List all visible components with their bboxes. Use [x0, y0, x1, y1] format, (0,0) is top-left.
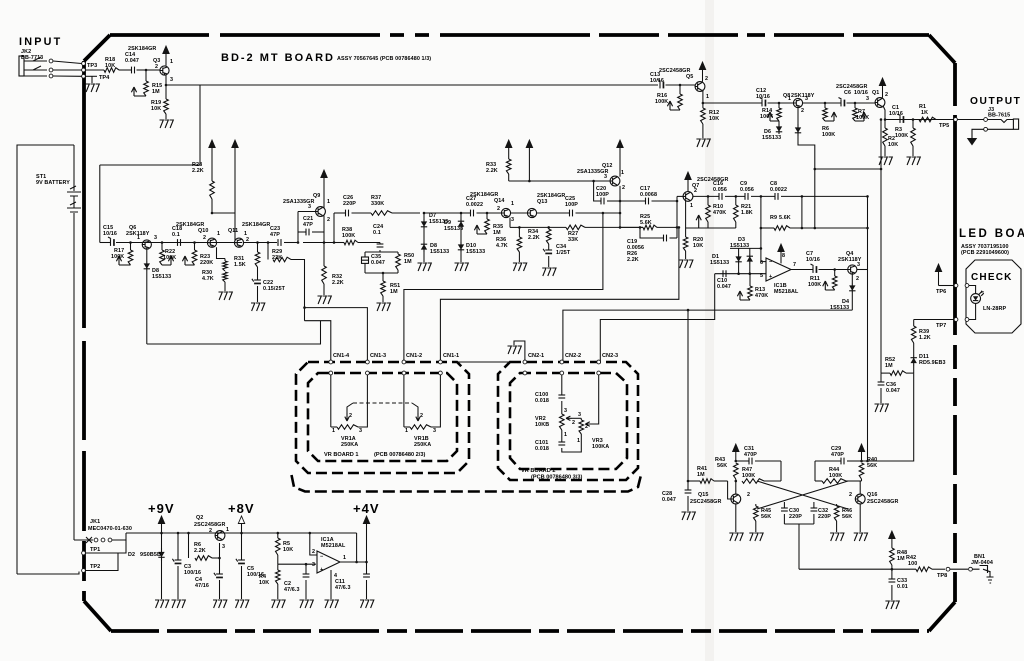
svg-text:56K: 56K	[761, 514, 771, 520]
capacitor C32 220P	[813, 502, 815, 508]
svg-text:47/16: 47/16	[195, 583, 209, 589]
svg-text:8: 8	[782, 253, 785, 259]
svg-text:1S5133: 1S5133	[762, 135, 781, 141]
svg-text:10K: 10K	[693, 243, 703, 249]
capacitor C23 47P	[277, 239, 279, 246]
svg-text:3: 3	[359, 428, 362, 434]
output line to TP8	[799, 568, 916, 570]
svg-text:CN1-1: CN1-1	[443, 353, 459, 359]
wire C8 node down	[801, 195, 804, 198]
wire junction up to C26/R37 row	[333, 213, 335, 243]
resistor R42 100	[916, 567, 932, 572]
svg-text:BD-2 MT BOARD: BD-2 MT BOARD	[221, 52, 335, 64]
VR board 1 inner outline	[308, 373, 457, 461]
svg-text:2: 2	[747, 492, 750, 498]
wire Q7 emitter down to bias bar	[685, 200, 687, 228]
feedback wire from Q1 emitter to first stage	[880, 120, 882, 374]
svg-text:TP4: TP4	[99, 75, 110, 81]
ganged pot dashed link	[347, 403, 353, 413]
control line from CN2-2	[563, 310, 852, 361]
svg-text:47P: 47P	[270, 232, 280, 238]
svg-text:0.0068: 0.0068	[640, 192, 657, 198]
ground below R2	[879, 157, 893, 165]
test point TP7	[969, 303, 976, 319]
wire C30/C32 to output line	[784, 523, 814, 525]
svg-text:100K: 100K	[111, 254, 124, 260]
wire to Q15 base	[728, 481, 731, 499]
cross-coupling wires	[757, 481, 848, 509]
svg-text:2: 2	[705, 76, 708, 82]
svg-text:100K: 100K	[829, 473, 842, 479]
resistor R38 100K on main row	[334, 242, 344, 244]
svg-text:2.2K: 2.2K	[528, 235, 540, 241]
resistor R25 5.6K	[620, 226, 643, 228]
ground below C36	[875, 404, 889, 412]
resistor R17 100K with bias arrow	[129, 241, 132, 244]
svg-text:220P: 220P	[343, 201, 356, 207]
resistor R45 56K	[755, 504, 757, 506]
svg-text:1S5133: 1S5133	[730, 243, 749, 249]
ground below R4	[271, 600, 285, 608]
svg-text:2: 2	[349, 413, 352, 419]
power arrow right rail	[858, 444, 864, 452]
wire VR2 wiper to VR3	[572, 417, 581, 419]
svg-text:1.2K: 1.2K	[919, 335, 931, 341]
Q16 collector and emitter wires	[859, 481, 861, 494]
svg-text:9S0B5B: 9S0B5B	[140, 552, 161, 558]
svg-text:100KA: 100KA	[592, 444, 609, 450]
diode pair D1/D3 feedback	[760, 247, 763, 250]
VR boards common envelope	[292, 475, 642, 492]
capacitor C22 0.15/25T	[254, 279, 261, 281]
svg-text:LN-28RP: LN-28RP	[983, 306, 1006, 312]
ground below R51	[377, 303, 391, 311]
svg-text:2: 2	[420, 413, 423, 419]
svg-text:+8V: +8V	[228, 501, 255, 516]
test point TP3	[82, 62, 86, 66]
test point TP4	[82, 68, 86, 72]
svg-text:0.018: 0.018	[535, 398, 549, 404]
svg-text:TP7: TP7	[936, 323, 946, 329]
wire R29 path to CN1-4	[305, 321, 331, 361]
svg-text:2.2K: 2.2K	[627, 257, 639, 263]
resistor R48 1M	[890, 548, 895, 565]
svg-text:33K: 33K	[568, 237, 578, 243]
svg-text:5.6K: 5.6K	[779, 215, 791, 221]
svg-text:100K: 100K	[895, 133, 908, 139]
wire IC1A output to +4V node	[340, 561, 367, 563]
svg-text:100K: 100K	[742, 473, 755, 479]
svg-text:2.2K: 2.2K	[192, 168, 204, 174]
wire jack to TP3/TP4	[53, 61, 82, 64]
ground below C11	[360, 600, 374, 608]
svg-text:22K: 22K	[272, 255, 282, 261]
svg-text:100K: 100K	[342, 233, 355, 239]
svg-text:250KA: 250KA	[414, 442, 431, 448]
svg-text:3: 3	[604, 174, 607, 180]
diode D11 RD5.9EB3	[913, 355, 915, 366]
svg-text:1: 1	[343, 555, 346, 561]
svg-text:2: 2	[312, 549, 315, 555]
svg-text:2: 2	[209, 528, 212, 534]
wire battery minus to TP2	[17, 572, 79, 575]
svg-text:0.01: 0.01	[897, 584, 908, 590]
ground below D2	[155, 600, 169, 608]
resistor R7 100K with bias arrow	[854, 102, 857, 105]
capacitor C28 0.047	[687, 480, 690, 483]
wire CN1-2 to clipping row	[404, 213, 603, 361]
wire Q3 source to bus	[166, 75, 200, 85]
test point TP8	[946, 567, 950, 571]
svg-text:0.1: 0.1	[172, 232, 180, 238]
resistor R4 10K	[277, 564, 279, 570]
svg-text:Q1: Q1	[872, 90, 879, 96]
potentiometer VR3 100KA	[580, 418, 582, 420]
svg-text:2: 2	[856, 276, 859, 282]
ground below D8	[418, 263, 432, 271]
svg-text:1K: 1K	[921, 110, 928, 116]
capacitor C19 0.0056 loop	[639, 226, 642, 229]
svg-text:1: 1	[327, 199, 330, 205]
svg-text:3: 3	[578, 412, 581, 418]
ground below R20	[679, 260, 693, 268]
svg-text:1S5133: 1S5133	[152, 274, 171, 280]
resistors R23 220K / R30 4.7K	[217, 247, 226, 258]
wire Q5 emitter down	[702, 90, 704, 104]
svg-text:1S5133: 1S5133	[430, 249, 449, 255]
svg-text:2SK118Y: 2SK118Y	[791, 93, 815, 99]
capacitor C30 220P	[783, 502, 785, 508]
svg-text:TP6: TP6	[936, 289, 946, 295]
svg-text:10/16: 10/16	[650, 78, 664, 84]
wire CN1-2 into pot VR1B	[403, 375, 405, 427]
resistor R3 100K	[912, 118, 915, 121]
main board outline (dashed)	[110, 33, 929, 37]
svg-text:56K: 56K	[867, 463, 877, 469]
ground below R3	[907, 157, 921, 165]
transistor Q7 2SC2458GR	[683, 192, 693, 202]
svg-text:1M: 1M	[390, 289, 398, 295]
wire Q1 emitter to output row	[883, 106, 885, 120]
svg-text:47/6.3: 47/6.3	[335, 585, 351, 591]
resistor R12 10K	[702, 103, 704, 108]
capacitor C20 100P loop	[592, 180, 595, 183]
transistor Q8 2SK118Y	[793, 98, 802, 107]
resistor R5 10K	[277, 532, 280, 535]
capacitor C12 10/16	[761, 100, 763, 107]
op-amp IC1B M5218AL	[766, 258, 791, 281]
wire Q13 to C25	[537, 212, 569, 214]
svg-text:1/25T: 1/25T	[556, 250, 571, 256]
ground below R45	[749, 533, 763, 541]
resistor R43 56K	[735, 460, 738, 463]
Q15 collector and emitter wires	[735, 481, 737, 494]
capacitor C31 470P	[736, 460, 749, 462]
capacitor C101 0.018	[561, 430, 563, 442]
ground below Q16	[854, 533, 868, 541]
svg-text:1M: 1M	[697, 472, 705, 478]
svg-text:2: 2	[849, 492, 852, 498]
svg-text:250KA: 250KA	[341, 442, 358, 448]
wire Q4 to tone column	[857, 269, 868, 271]
wire Q2 emitter to C4	[219, 543, 221, 574]
svg-text:Q14: Q14	[494, 198, 505, 204]
power arrow above Q5	[699, 62, 705, 70]
diode D6 1S5133	[778, 121, 780, 124]
svg-text:Q10: Q10	[198, 228, 209, 234]
svg-text:9V BATTERY: 9V BATTERY	[36, 180, 70, 186]
capacitor C17 0.0068	[620, 200, 645, 202]
resistor R14 100K with bias arrow	[778, 102, 781, 105]
resistor R39 1.2K	[913, 320, 915, 327]
svg-text:470K: 470K	[755, 293, 768, 299]
capacitor C34 1/25T	[545, 249, 552, 251]
wire Q6 gate to tone feedback line	[146, 271, 148, 344]
svg-text:2SC2458GR: 2SC2458GR	[690, 499, 721, 505]
svg-text:Q5: Q5	[686, 74, 693, 80]
svg-text:2: 2	[694, 188, 697, 194]
wire R9 node to IC1B pin6	[760, 228, 762, 262]
ground below C34	[542, 268, 556, 276]
resistor R32 2.2K	[322, 266, 327, 284]
transistor Q1 2SC2458GR	[875, 98, 885, 108]
resistor R20 10K	[685, 228, 687, 237]
resistor R10 470K with bias arrow	[707, 195, 710, 198]
resistor R16 100K with bias arrow	[679, 84, 682, 87]
long signal bus wire to Q5	[199, 85, 201, 165]
svg-text:10K: 10K	[105, 63, 115, 69]
svg-text:0.0022: 0.0022	[770, 187, 787, 193]
wire Q12 collector down	[619, 186, 621, 228]
transistor Q4 2SK118Y	[848, 265, 857, 274]
svg-text:470P: 470P	[744, 452, 757, 458]
ground below C22	[251, 303, 265, 311]
svg-text:3: 3	[308, 204, 311, 210]
resistor R41 1M	[688, 480, 700, 482]
resistor R1 1K	[919, 117, 936, 122]
svg-text:4.7K: 4.7K	[202, 276, 214, 282]
svg-text:100K: 100K	[163, 255, 176, 261]
wire pin5 to CN2-3	[600, 274, 714, 361]
wire CN1-1 to R25 node	[440, 227, 679, 361]
ground below C28	[682, 512, 696, 520]
capacitor C9 0.056	[744, 193, 746, 200]
ground below D10	[455, 263, 469, 271]
svg-text:INPUT: INPUT	[19, 36, 62, 48]
resistor R52 1M	[881, 372, 890, 374]
ground below R36	[513, 263, 527, 271]
svg-text:1S5133: 1S5133	[466, 249, 485, 255]
svg-text:BB-7615: BB-7615	[988, 113, 1010, 119]
svg-text:1S5133: 1S5133	[710, 260, 729, 266]
svg-text:RD5.9EB3: RD5.9EB3	[919, 360, 946, 366]
resistor R18 10K	[104, 68, 119, 73]
svg-text:2.2K: 2.2K	[486, 168, 498, 174]
svg-text:2.2K: 2.2K	[332, 280, 344, 286]
svg-text:M5218AL: M5218AL	[321, 543, 346, 549]
svg-text:Q2: Q2	[196, 515, 203, 521]
jack JK2	[19, 56, 24, 76]
svg-text:1M: 1M	[404, 259, 412, 265]
ground below R12	[696, 139, 710, 147]
ground hook at CN2-1	[514, 341, 525, 360]
ground below R46	[830, 533, 844, 541]
svg-text:+4V: +4V	[353, 501, 380, 516]
svg-text:1M: 1M	[897, 556, 905, 562]
svg-text:(PCB 00786480 2/3): (PCB 00786480 2/3)	[374, 452, 425, 458]
wire R5 to IC1A pin3	[278, 563, 316, 565]
svg-text:3: 3	[866, 96, 869, 102]
svg-text:10K: 10K	[151, 106, 161, 112]
ground below C4	[213, 600, 227, 608]
power arrow above Q7	[685, 172, 691, 180]
svg-text:2: 2	[801, 108, 804, 114]
svg-text:2: 2	[497, 206, 500, 212]
capacitor C24 0.1	[379, 243, 381, 245]
svg-text:CN2-3: CN2-3	[602, 353, 618, 359]
diode D8 1S5133 below Q6 gate	[146, 249, 148, 261]
svg-text:+9V: +9V	[148, 501, 175, 516]
power arrow and wire to Q11 drain	[232, 140, 238, 148]
svg-text:2SK184GR: 2SK184GR	[128, 46, 156, 52]
LED LN-28RP	[969, 286, 976, 294]
svg-text:1: 1	[217, 231, 220, 237]
svg-text:Q16: Q16	[867, 492, 878, 498]
resistor R19 10K	[165, 84, 168, 87]
svg-text:220P: 220P	[818, 514, 831, 520]
svg-text:2: 2	[572, 420, 575, 426]
svg-text:470K: 470K	[713, 210, 726, 216]
svg-text:0.047: 0.047	[886, 388, 900, 394]
svg-text:1: 1	[405, 428, 408, 434]
svg-text:100: 100	[908, 561, 917, 567]
svg-text:TP8: TP8	[937, 573, 947, 579]
capacitor C6 10/16	[840, 100, 842, 107]
wire Q14 to Q13	[511, 212, 528, 214]
potentiometer VR1A 250KA	[337, 425, 358, 430]
svg-text:100K: 100K	[856, 115, 869, 121]
capacitor C26 220P	[334, 212, 345, 214]
svg-text:1: 1	[137, 235, 140, 241]
VR board 1 outer outline	[296, 362, 469, 473]
test point TP6 with power arrow	[935, 264, 941, 272]
svg-text:56K: 56K	[842, 514, 852, 520]
capacitor C13 10/16	[659, 82, 661, 89]
svg-text:10/16: 10/16	[806, 257, 820, 263]
svg-text:100K: 100K	[760, 114, 773, 120]
svg-text:1M: 1M	[885, 363, 893, 369]
diode D2	[161, 533, 163, 548]
power arrow column x=529	[526, 140, 532, 148]
transistor Q10 2SK184GR	[207, 238, 216, 247]
transistor Q11 2SK184GR	[234, 238, 243, 247]
svg-text:2: 2	[203, 235, 206, 241]
power arrow above Q12 emitter	[617, 140, 623, 148]
potentiometer VR2 10KB	[560, 414, 565, 430]
svg-text:330K: 330K	[371, 201, 384, 207]
ground at TP4	[91, 76, 93, 83]
capacitor C8 0.0022	[774, 193, 776, 200]
svg-text:D2: D2	[128, 552, 135, 558]
test point TP1	[82, 551, 86, 555]
wire to Q7 base	[676, 196, 678, 238]
svg-text:0.018: 0.018	[535, 446, 549, 452]
svg-text:10/16: 10/16	[103, 231, 117, 237]
resistor R6 2.2K	[187, 532, 190, 535]
svg-text:100K: 100K	[822, 132, 835, 138]
bias bar below Q7	[686, 227, 736, 229]
svg-text:56K: 56K	[717, 463, 727, 469]
svg-text:2: 2	[327, 217, 330, 223]
capacitor C2 47/6.3	[305, 563, 308, 566]
long wire from line c to flip-flop	[687, 310, 689, 481]
resistor R47 100K	[735, 480, 738, 483]
svg-text:1: 1	[706, 94, 709, 100]
svg-text:CN2-2: CN2-2	[565, 353, 581, 359]
resistor R27 33K	[549, 226, 566, 228]
wire JK1 to supply rail	[112, 533, 126, 540]
VR board 2 outer outline	[498, 362, 638, 480]
resistor R2 10K	[884, 118, 887, 121]
svg-text:CN1-4: CN1-4	[333, 353, 350, 359]
svg-text:220K: 220K	[200, 260, 213, 266]
wire Q9 collector to R32	[323, 216, 325, 267]
wire Q11 to C23	[244, 242, 277, 244]
svg-text:10K: 10K	[709, 116, 719, 122]
svg-text:47P: 47P	[303, 222, 313, 228]
svg-text:2: 2	[155, 64, 158, 70]
wire IC1A pin4 to ground	[330, 570, 332, 599]
+9V supply rail	[126, 532, 357, 534]
svg-text:0.047: 0.047	[662, 497, 676, 503]
svg-text:10K: 10K	[888, 142, 898, 148]
resistor R46 56K	[836, 504, 838, 506]
svg-text:2SK184GR: 2SK184GR	[242, 222, 270, 228]
resistor R13 470K with bias arrow	[749, 274, 751, 286]
svg-text:TP2: TP2	[90, 564, 100, 570]
svg-text:TP1: TP1	[90, 547, 100, 553]
ground below C3	[172, 600, 186, 608]
svg-text:OUTPUT: OUTPUT	[970, 96, 1021, 107]
CHECK board outline	[966, 260, 1021, 333]
svg-text:CHECK: CHECK	[971, 272, 1013, 283]
resistor R36 4.7K	[510, 226, 519, 228]
svg-text:3: 3	[511, 217, 514, 223]
test point TP2	[82, 569, 86, 573]
svg-text:10/16: 10/16	[756, 94, 770, 100]
svg-text:3: 3	[170, 77, 173, 83]
wire and border pin to output jack	[936, 119, 954, 121]
svg-text:100P: 100P	[596, 192, 609, 198]
resistor R28 2.2K	[209, 140, 215, 148]
ground below C33	[885, 601, 899, 609]
svg-text:6: 6	[760, 260, 763, 266]
svg-text:10KB: 10KB	[535, 422, 549, 428]
IC1B output row	[791, 269, 813, 271]
capacitor C21 47P and Q9 base wire	[297, 241, 300, 244]
transistor Q5 2SC2458GR	[695, 82, 705, 92]
wire R33 to Q12 base	[509, 180, 610, 182]
svg-text:7: 7	[793, 262, 796, 268]
resistor R31 1.5K	[256, 241, 259, 244]
wire R9 row extension to Q4 column	[815, 227, 868, 229]
ground below C2	[300, 600, 314, 608]
resistor R6 100K with bias arrow	[824, 102, 827, 105]
svg-text:2SC2458GR: 2SC2458GR	[867, 499, 898, 505]
resistor R34 2.2K	[519, 226, 548, 228]
VR board 2 inner outline	[510, 373, 627, 469]
capacitor C7 10/16	[812, 266, 814, 273]
